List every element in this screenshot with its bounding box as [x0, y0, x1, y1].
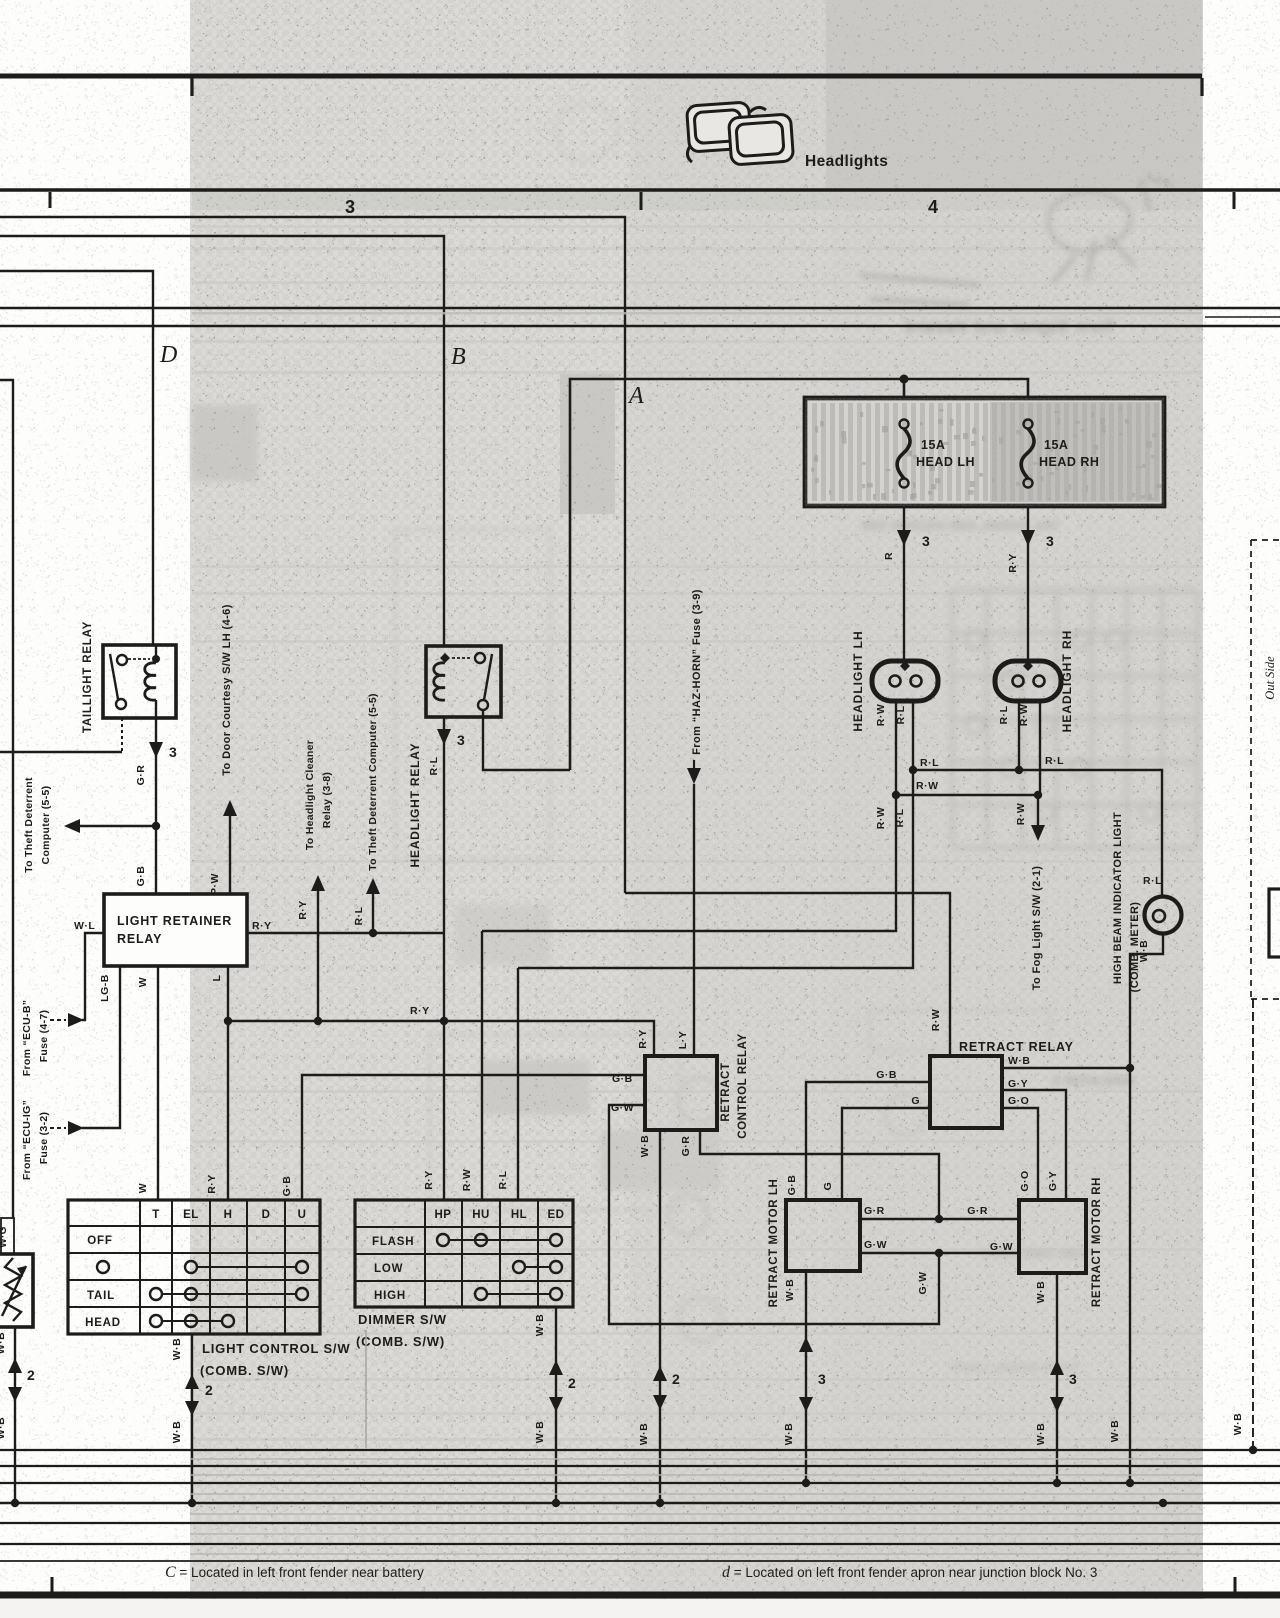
branch to theft deterrent computer [152, 822, 160, 830]
headlight RH [995, 661, 1061, 701]
retract relay G-Y to motor RH [1002, 1090, 1066, 1200]
svg-text:A: A [627, 383, 644, 409]
bottom border [0, 1592, 1280, 1599]
right edge dashed box [1250, 540, 1252, 999]
svg-text:R·W: R·W [875, 807, 887, 830]
svg-text:G·W: G·W [917, 1271, 929, 1294]
svg-text:CONTROL RELAY: CONTROL RELAY [737, 1033, 749, 1139]
svg-text:G·Y: G·Y [1008, 1078, 1028, 1090]
svg-text:Computer (5-5): Computer (5-5) [40, 786, 52, 865]
svg-text:R·W: R·W [875, 704, 887, 727]
svg-text:2: 2 [568, 1375, 576, 1391]
retract relay G to motor LH [842, 1108, 930, 1200]
svg-text:R·L: R·L [497, 1170, 509, 1189]
svg-text:(COMB. S/W): (COMB. S/W) [356, 1334, 445, 1349]
svg-text:15A: 15A [921, 438, 945, 452]
retract motor RH [1019, 1200, 1086, 1273]
retract relay [930, 1056, 1002, 1128]
svg-text:R·Y: R·Y [206, 1174, 218, 1194]
ruler tick x1234 [1233, 192, 1236, 209]
svg-text:To Fog Light S/W (2-1): To Fog Light S/W (2-1) [1031, 866, 1043, 991]
svg-text:To Theft Deterrent Computer (5: To Theft Deterrent Computer (5-5) [367, 693, 379, 871]
retract relay G-O to motor RH [1002, 1108, 1038, 1200]
svg-text:RETRACT MOTOR LH: RETRACT MOTOR LH [768, 1179, 780, 1308]
svg-text:From “HAZ-HORN” Fuse (3-9): From “HAZ-HORN” Fuse (3-9) [691, 589, 703, 755]
svg-text:To Headlight Cleaner: To Headlight Cleaner [304, 740, 316, 850]
motor LH ground W-B [805, 1271, 807, 1483]
ghost text patches [192, 405, 1135, 1375]
svg-text:HL: HL [511, 1209, 527, 1221]
fuse 15A HEAD LH [900, 420, 909, 429]
R-Y bus wire [228, 1021, 654, 1056]
ghost bleedthrough top-right [555, 104, 1172, 336]
svg-text:HIGH BEAM INDICATOR LIGHT: HIGH BEAM INDICATOR LIGHT [1112, 812, 1124, 984]
svg-text:W·B: W·B [1232, 1413, 1244, 1436]
svg-text:W·B: W·B [534, 1421, 546, 1444]
retract control relay [645, 1056, 717, 1130]
ghost grid center-right [861, 518, 1197, 848]
svg-text:R·W: R·W [461, 1169, 473, 1192]
tick below top border x1202 [1200, 78, 1203, 96]
headlight relay [426, 646, 501, 717]
top border line [0, 74, 1202, 79]
high beam indicator light U (comb meter) [1145, 897, 1182, 934]
svg-text:R·Y: R·Y [410, 1005, 430, 1017]
R-L high beam bus [913, 770, 1162, 896]
L pin wire / R-Y to light control [227, 966, 229, 1200]
svg-text:(COMB. S/W): (COMB. S/W) [200, 1363, 289, 1378]
faint scan lines bottom [190, 1458, 1203, 1460]
headlight RH pin wires [1018, 700, 1020, 770]
fuse box [805, 398, 1164, 506]
wire x625 to retract relay R-W [625, 893, 950, 1056]
taillight switch output wire to page edge [0, 751, 122, 753]
svg-text:LIGHT RETAINER: LIGHT RETAINER [117, 914, 232, 928]
svg-text:OFF: OFF [87, 1235, 112, 1247]
svg-text:R·W: R·W [916, 780, 939, 792]
svg-text:Fuse (4-7): Fuse (4-7) [38, 1010, 50, 1063]
svg-text:B: B [451, 344, 466, 370]
bottom tick x52 [51, 1577, 54, 1592]
svg-text:G·W: G·W [864, 1239, 887, 1251]
bus wire y326 [0, 325, 1280, 327]
svg-text:C = Located in left front fend: C = Located in left front fender near ba… [165, 1564, 424, 1581]
dimmer ED W-B ground [555, 1307, 557, 1503]
D wire [0, 271, 153, 646]
tick below top border x192 [190, 78, 193, 96]
svg-text:W·B: W·B [1109, 1420, 1121, 1443]
svg-text:W·B: W·B [0, 1332, 7, 1355]
G-W wire control relay to motor bus [609, 1105, 939, 1324]
svg-text:LIGHT CONTROL S/W: LIGHT CONTROL S/W [202, 1341, 350, 1356]
svg-text:R·Y: R·Y [423, 1170, 435, 1190]
svg-text:R·Y: R·Y [1007, 553, 1019, 573]
svg-text:R·L: R·L [1045, 755, 1064, 767]
svg-text:G·B: G·B [281, 1176, 293, 1197]
margin below bottom border [0, 1599, 1280, 1618]
svg-text:FLASH: FLASH [372, 1236, 414, 1248]
retract relay G-B to motor LH [806, 1082, 930, 1200]
svg-text:L: L [211, 974, 223, 981]
ruler line [0, 188, 1280, 192]
headlight relay output to A wire [483, 710, 570, 770]
svg-text:W·B: W·B [1008, 1055, 1031, 1067]
rheostat ground wire W-B [14, 1327, 16, 1503]
svg-text:Out Side: Out Side [1263, 656, 1277, 700]
svg-text:R·L: R·L [894, 808, 906, 827]
W-G connector stub [1, 1218, 14, 1254]
G-B wire control relay to light control U [302, 1075, 645, 1200]
svg-text:3: 3 [169, 744, 177, 760]
svg-text:R·L: R·L [1143, 875, 1162, 887]
svg-text:P·W: P·W [209, 873, 221, 895]
svg-text:3: 3 [345, 197, 355, 217]
svg-text:W: W [137, 1183, 149, 1193]
bus wire y217 (to x625) [0, 217, 625, 893]
svg-text:LG-B: LG-B [99, 974, 111, 1002]
svg-text:ED: ED [548, 1209, 565, 1221]
wire fuse LH to headlight LH [903, 506, 905, 662]
svg-text:2: 2 [205, 1382, 213, 1398]
svg-text:W·B: W·B [639, 1135, 651, 1158]
light control W-B ground [191, 1334, 193, 1503]
svg-text:G·O: G·O [1008, 1095, 1029, 1107]
LG-B pin to ECU-IG [82, 966, 120, 1128]
svg-text:From “ECU-B”: From “ECU-B” [21, 1000, 33, 1077]
fog light branch [1037, 795, 1039, 826]
svg-text:Relay (3-8): Relay (3-8) [321, 772, 333, 828]
dimmer contacts LOW [513, 1261, 525, 1273]
svg-text:G·R: G·R [864, 1205, 885, 1217]
R-L wire to dimmer HL [517, 968, 519, 1200]
ruler tick x641 [640, 192, 643, 210]
light retainer relay [104, 894, 247, 966]
W-B pin of control relay [659, 1130, 661, 1503]
headlights icon [686, 102, 793, 165]
faint pencil line [365, 1330, 367, 1448]
svg-text:R·W: R·W [930, 1009, 942, 1032]
fuse 15A HEAD RH [1024, 420, 1033, 429]
svg-text:4: 4 [928, 197, 938, 217]
svg-text:G·B: G·B [786, 1175, 798, 1196]
svg-text:G·B: G·B [135, 866, 147, 887]
wire fuse RH to headlight RH [1027, 506, 1029, 662]
svg-text:15A: 15A [1044, 438, 1068, 452]
svg-text:d = Located on left front fend: d = Located on left front fender apron n… [722, 1564, 1097, 1581]
svg-text:HEADLIGHT LH: HEADLIGHT LH [851, 630, 865, 731]
svg-text:W: W [137, 977, 149, 987]
svg-text:RELAY: RELAY [117, 932, 162, 946]
svg-text:Fuse (3-2): Fuse (3-2) [38, 1112, 50, 1165]
svg-text:U: U [298, 1209, 307, 1221]
svg-text:W·B: W·B [171, 1338, 183, 1361]
svg-text:TAIL: TAIL [87, 1290, 115, 1302]
svg-text:W·L: W·L [74, 920, 95, 932]
svg-text:HEAD LH: HEAD LH [916, 455, 975, 469]
svg-text:2: 2 [27, 1367, 35, 1383]
short bus stub right y317 [1205, 316, 1280, 318]
svg-text:HEAD: HEAD [85, 1317, 121, 1329]
G-W link motors [860, 1252, 1019, 1254]
svg-text:3: 3 [1046, 533, 1054, 549]
svg-text:RETRACT RELAY: RETRACT RELAY [959, 1040, 1074, 1054]
retract relay W-B [1002, 1067, 1130, 1069]
svg-text:R: R [883, 552, 895, 560]
G-R link motors [860, 1218, 1019, 1220]
ruler tick x50 [49, 192, 52, 208]
svg-text:R·Y: R·Y [252, 920, 272, 932]
svg-text:W·B: W·B [1138, 940, 1150, 963]
rheostat (rear light control) [0, 1254, 33, 1327]
svg-text:G·R: G·R [967, 1205, 988, 1217]
svg-text:R·L: R·L [353, 906, 365, 925]
svg-text:3: 3 [818, 1371, 826, 1387]
indicator ground wire [1130, 934, 1163, 1483]
svg-text:G·R: G·R [680, 1136, 692, 1157]
ground junction y1450 [1249, 1446, 1257, 1454]
light control contacts TAIL [150, 1288, 162, 1300]
svg-text:R·W: R·W [1015, 803, 1027, 826]
svg-text:HEAD RH: HEAD RH [1039, 455, 1099, 469]
light control contacts row2 [185, 1261, 197, 1273]
svg-text:3: 3 [1069, 1371, 1077, 1387]
taillight relay feed/output wires [155, 645, 157, 659]
svg-text:W·B: W·B [1035, 1423, 1047, 1446]
right edge W-B wire [1252, 999, 1254, 1450]
dimmer switch table [355, 1200, 573, 1307]
svg-text:W·G: W·G [0, 1226, 9, 1247]
svg-text:G·W: G·W [990, 1241, 1013, 1253]
svg-text:HIGH: HIGH [374, 1290, 406, 1302]
svg-text:To Theft Deterrent: To Theft Deterrent [23, 777, 35, 873]
svg-text:HU: HU [472, 1209, 490, 1221]
light control switch table [68, 1200, 320, 1334]
svg-text:G·W: G·W [611, 1102, 634, 1114]
svg-text:R·Y: R·Y [297, 900, 309, 920]
svg-text:LOW: LOW [374, 1263, 403, 1275]
W pin wire [157, 966, 159, 1200]
theft deterrent branch R-L [369, 929, 377, 937]
headlight LH [872, 661, 938, 701]
svg-text:HEADLIGHT RH: HEADLIGHT RH [1060, 630, 1074, 733]
R-W wire to dimmer HU [481, 931, 483, 1200]
headlight LH pin wires [482, 700, 896, 931]
svg-text:RETRACT: RETRACT [720, 1062, 732, 1121]
ground junctions y1503 [11, 1499, 19, 1507]
svg-text:2: 2 [672, 1371, 680, 1387]
svg-text:T: T [152, 1209, 160, 1221]
light control contacts HEAD [150, 1315, 162, 1327]
svg-text:To Door Courtesy S/W LH (4-6): To Door Courtesy S/W LH (4-6) [221, 604, 233, 776]
svg-text:W·B: W·B [171, 1421, 183, 1444]
taillight relay [103, 645, 176, 718]
svg-text:R·L: R·L [920, 757, 939, 769]
left edge W-G feed wire [0, 380, 13, 1218]
svg-text:R·L: R·L [428, 756, 440, 775]
retract motor LH [786, 1200, 860, 1271]
headlight relay coil return R-L [443, 717, 445, 1200]
dimmer contacts FLASH [437, 1234, 449, 1246]
svg-text:G·O: G·O [1019, 1170, 1031, 1191]
svg-text:HEADLIGHT RELAY: HEADLIGHT RELAY [408, 743, 422, 868]
svg-text:W·B: W·B [784, 1279, 796, 1302]
svg-text:EL: EL [183, 1209, 199, 1221]
G-R pin of control relay [700, 1130, 939, 1219]
svg-text:TAILLIGHT RELAY: TAILLIGHT RELAY [82, 621, 94, 733]
A wire (headlight feed) [570, 379, 1028, 770]
bus wire y236 (B feed, to x444) [0, 236, 444, 646]
svg-text:RETRACT MOTOR RH: RETRACT MOTOR RH [1091, 1177, 1103, 1307]
svg-text:W·B: W·B [534, 1314, 546, 1337]
svg-text:G·Y: G·Y [1047, 1171, 1059, 1191]
bottom tick x1235 [1234, 1577, 1237, 1592]
right edge small box [1269, 889, 1280, 957]
svg-text:D: D [159, 342, 177, 368]
headlight cleaner branch R-Y [317, 890, 319, 1021]
R-W low beam bus [896, 794, 1038, 796]
svg-text:G·B: G·B [612, 1073, 633, 1085]
svg-text:G: G [911, 1095, 920, 1107]
svg-text:3: 3 [922, 533, 930, 549]
svg-text:G·B: G·B [876, 1069, 897, 1081]
bus wire y308 [0, 307, 1280, 309]
svg-text:R·L: R·L [998, 705, 1010, 724]
ground junctions y1483 [802, 1479, 810, 1487]
svg-text:L·Y: L·Y [677, 1031, 689, 1049]
dimmer contacts HIGH [475, 1288, 487, 1300]
svg-text:W·B: W·B [638, 1423, 650, 1446]
svg-text:Headlights: Headlights [805, 153, 888, 170]
svg-text:W·B: W·B [1035, 1281, 1047, 1304]
svg-text:G: G [822, 1182, 834, 1191]
svg-text:H: H [224, 1209, 233, 1221]
svg-text:3: 3 [457, 732, 465, 748]
svg-text:G·R: G·R [135, 765, 147, 786]
svg-text:R·Y: R·Y [637, 1029, 649, 1049]
svg-text:HP: HP [435, 1209, 452, 1221]
svg-text:W·B: W·B [783, 1423, 795, 1446]
svg-text:DIMMER S/W: DIMMER S/W [358, 1312, 447, 1327]
junction on A wire [900, 375, 909, 384]
motor RH ground W-B [1056, 1273, 1058, 1483]
svg-text:W·B: W·B [0, 1417, 7, 1440]
svg-text:From “ECU-IG”: From “ECU-IG” [21, 1100, 33, 1180]
bottom ground bus lines [0, 1449, 1280, 1451]
svg-text:D: D [262, 1209, 271, 1221]
